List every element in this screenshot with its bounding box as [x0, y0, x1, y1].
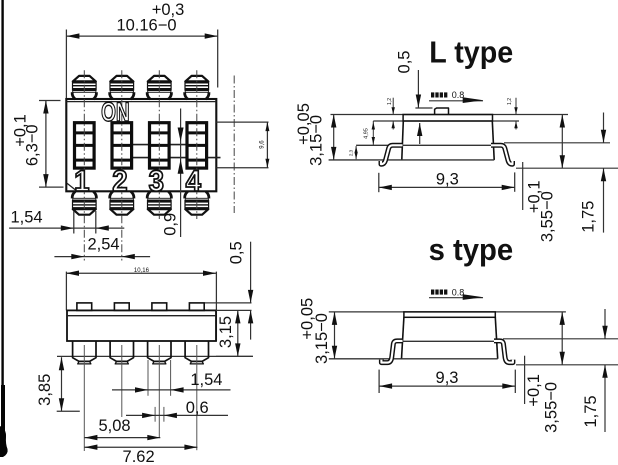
svg-text:1,75: 1,75	[582, 395, 600, 427]
extension line at body top level	[216, 309, 252, 311]
bottom seal pin 3 (crown, mirrored)	[147, 191, 172, 214]
svg-text:10.16−0: 10.16−0	[116, 17, 176, 35]
body bottom line with left extension (L type)	[329, 159, 495, 161]
tiny dimension lead height (L type)	[355, 146, 357, 159]
switch window 1	[75, 123, 95, 168]
switch window 4	[187, 123, 207, 168]
top seal pin 2 (crown)	[110, 76, 133, 82]
svg-text:5,08: 5,08	[98, 417, 130, 435]
switch body (front view)	[67, 310, 216, 341]
actuation marking 0.8 with arrow (L type)	[431, 92, 434, 97]
dimension 5.08 (pin 1 to pin 3)	[84, 437, 160, 439]
svg-text:1,75: 1,75	[580, 201, 598, 233]
right gull-wing lead (L type)	[491, 145, 513, 164]
svg-text:4,95: 4,95	[364, 128, 370, 139]
DIP switch body outline (top view)	[66, 99, 216, 191]
dimension 0.6 pin tip width	[154, 407, 156, 422]
svg-text:3,85: 3,85	[36, 374, 54, 406]
extension line at button top level	[205, 302, 252, 304]
svg-text:9,3: 9,3	[436, 170, 459, 188]
dimension 2.54 (pin pitch, top view)	[54, 256, 150, 258]
svg-text:9,3: 9,3	[436, 369, 459, 387]
top seal pin 1 (crown)	[73, 76, 96, 82]
tiny dimension 4.95 (L type)	[372, 121, 374, 145]
svg-text:+0,1: +0,1	[525, 374, 543, 407]
dimension 1.75 lead height (L type)	[603, 113, 605, 143]
centerlines of switch positions (dash-dot)	[83, 70, 85, 260]
dimension 3.55 +0.1/-0 (s type)	[524, 356, 526, 404]
shoulder extension line right (s type)	[503, 338, 618, 340]
svg-text:3,55−0: 3,55−0	[543, 382, 561, 433]
svg-text:0.8: 0.8	[452, 287, 465, 297]
overall width dimension line (front view, tiny 10,16)	[65, 272, 67, 311]
dimension 0.9 slider travel	[180, 109, 182, 238]
pin-1 corner chamfer	[67, 183, 77, 191]
bottom seal pin 4 (crown, mirrored)	[184, 191, 209, 214]
package cap slab (s type)	[404, 312, 495, 317]
svg-text:9,6: 9,6	[260, 140, 266, 149]
section centerline right of body (dash-dot)	[233, 76, 235, 214]
top seal pin 3 (crown)	[148, 76, 171, 82]
svg-text:7.62: 7.62	[123, 448, 155, 465]
svg-text:1,54: 1,54	[190, 371, 222, 389]
actuator button 4 (front view)	[189, 303, 204, 311]
scan artifact: left edge bar	[1, 0, 3, 392]
svg-text:1: 1	[74, 165, 89, 198]
pin centrelines (front view)	[83, 345, 85, 451]
left gull-wing lead (L type)	[381, 145, 403, 164]
body parting line (L type)	[356, 144, 494, 146]
left gull-wing lead (s type)	[381, 341, 402, 363]
through-hole pin 1 (front view)	[73, 341, 96, 361]
svg-text:s type: s type	[429, 233, 514, 267]
dimension 7.62 (pin 1 to pin 4)	[84, 446, 197, 448]
actuator bump (L type)	[435, 108, 449, 115]
actuator button 3 (front view)	[152, 303, 167, 311]
tiny dimension 1.2 cap thickness right (L type)	[515, 98, 517, 115]
svg-text:3,15−0: 3,15−0	[313, 313, 331, 364]
dimension 3.15 body height (front view)	[237, 310, 239, 356]
dimension 3.15 +0.05/-0 (s type)	[334, 312, 336, 359]
svg-text:3,15: 3,15	[217, 316, 235, 348]
dimension 3.85 pin length	[61, 357, 63, 411]
svg-text:1,54: 1,54	[10, 208, 42, 226]
dimension 3.15 +0.05/-0 (L type)	[333, 115, 335, 160]
seating plane extension line (L type)	[516, 167, 618, 169]
dimension 3.55 +0.1/-0 (L type)	[522, 162, 524, 210]
package cap top extension line (s type)	[329, 311, 566, 313]
svg-text:0,5: 0,5	[396, 51, 414, 74]
body bottom line with left extension (s type)	[329, 358, 498, 360]
bottom seal pin 2 (crown, mirrored)	[109, 191, 134, 214]
svg-text:L type: L type	[429, 36, 513, 70]
package cap slab (L type)	[403, 115, 492, 122]
switch window 3	[150, 123, 170, 168]
body parting line (s type)	[402, 340, 498, 342]
svg-text:0.8: 0.8	[452, 90, 465, 100]
package cap top extension line (L type)	[331, 114, 569, 116]
svg-text:2,3: 2,3	[348, 149, 353, 156]
svg-text:2,54: 2,54	[87, 236, 119, 254]
switch window 2	[112, 123, 132, 168]
through-hole pin 4 (front view)	[185, 341, 208, 361]
through-hole pin 2 (front view)	[110, 341, 133, 361]
dimension 1.75 lead height (s type)	[604, 309, 606, 339]
dimension 10.16 +0.3/-0 (body width)	[65, 30, 67, 99]
package cap bottom line (L type)	[373, 120, 519, 122]
svg-text:3,55−0: 3,55−0	[539, 191, 557, 242]
top seal pin 4 (crown)	[185, 76, 208, 82]
scan artifact: left edge blob	[0, 426, 8, 457]
svg-text:ON: ON	[101, 97, 130, 127]
right gull-wing lead (s type)	[494, 341, 513, 363]
slider travel lines inside body	[114, 144, 208, 146]
package body (s type)	[402, 317, 404, 359]
dimension 9.3 lead span (s type)	[378, 370, 380, 393]
dimension 0.5 button height (front view)	[250, 242, 252, 303]
svg-text:3,15−0: 3,15−0	[308, 115, 326, 166]
svg-text:1,2: 1,2	[387, 98, 393, 105]
dimension 9.3 lead span (L type)	[378, 173, 380, 192]
svg-text:2: 2	[112, 165, 127, 198]
svg-text:0,5: 0,5	[228, 241, 246, 264]
bottom seal pin 1 (crown, mirrored)	[72, 191, 97, 214]
svg-text:1,2: 1,2	[507, 98, 513, 105]
tiny dimension 1.2 cap thickness left (L type)	[392, 98, 394, 115]
dimension 1.54 (pin width, top view)	[73, 211, 75, 234]
shoulder extension line right (L type)	[504, 142, 610, 144]
svg-text:4: 4	[186, 165, 201, 198]
svg-text:10,16: 10,16	[134, 268, 150, 274]
actuator button 1 (front view)	[77, 303, 92, 311]
svg-text:3: 3	[149, 165, 164, 198]
actuator button 2 (front view)	[114, 303, 129, 311]
shoulder line through pins	[57, 355, 253, 357]
dimension 9.6 window span (right of body)	[216, 121, 268, 123]
svg-text:0,9: 0,9	[162, 213, 180, 236]
svg-text:0,6: 0,6	[186, 399, 209, 417]
actuation marking 0.8 with arrow (s type)	[431, 290, 434, 295]
package body (L type)	[402, 121, 404, 160]
dimension 6.3 +0.1/-0 (body height)	[39, 100, 61, 102]
svg-text:6,3−0: 6,3−0	[24, 124, 42, 166]
seating plane extension line (s type)	[516, 364, 618, 366]
through-hole pin 3 (front view)	[148, 341, 171, 361]
dimension 1.54 pin width (front view)	[147, 360, 149, 396]
